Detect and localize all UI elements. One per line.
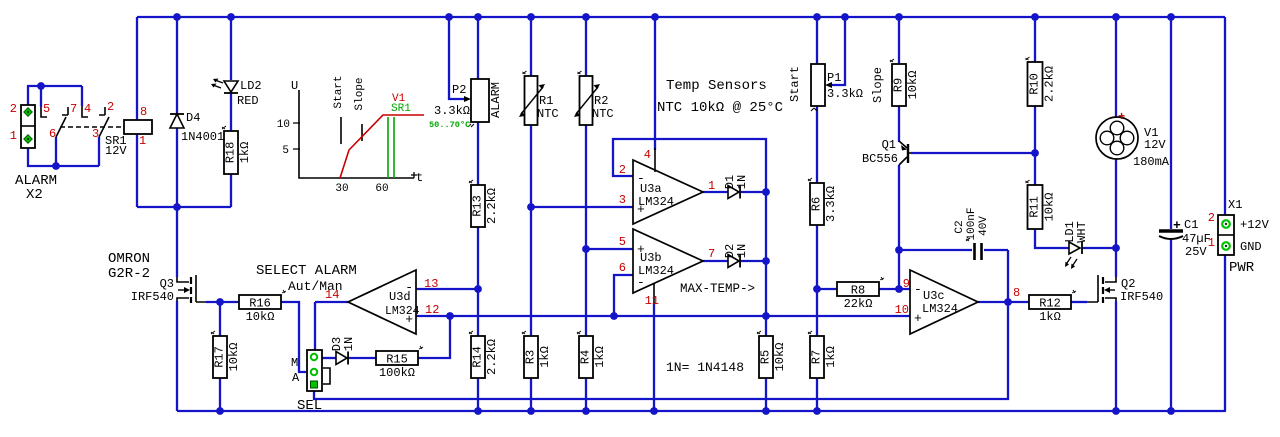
resistor R12 [1029,295,1071,309]
svg-text:2: 2 [107,100,114,114]
svg-text:30: 30 [335,183,348,195]
svg-text:1N: 1N [342,337,356,351]
wire X1 pin1 to ground [1224,255,1226,411]
SEL pin A (green) [311,369,317,375]
X1 pin 2 (green) [1222,220,1230,228]
svg-text:LM324: LM324 [922,302,958,316]
lamp V1 [1096,117,1138,159]
svg-text:-: - [637,171,645,186]
svg-text:X1: X1 [1228,198,1242,212]
wire R2 bottom to R4 [585,125,587,336]
wire LD2 top [230,17,232,80]
relay coil SR1 [124,120,152,134]
wire U3a pin4 from rail [654,17,656,150]
svg-text:1N= 1N4148: 1N= 1N4148 [666,360,744,375]
wire U3b output to D2 [703,260,728,262]
wire U3b pin5 net [586,248,633,250]
svg-text:Slope: Slope [354,77,366,110]
resistor R9 [892,64,906,106]
relay contact terminal 5 [41,107,47,117]
wire P2 to R13 [477,122,479,185]
svg-text:60: 60 [375,183,388,195]
svg-text:C1: C1 [1184,218,1198,232]
svg-text:2: 2 [1208,211,1215,225]
svg-text:25V: 25V [1185,245,1207,259]
wire U3a pin3 net [531,206,633,208]
svg-text:-: - [914,282,922,297]
graph green lines SR1 [388,117,394,178]
svg-text:Slope: Slope [871,67,885,103]
svg-text:P1: P1 [827,71,841,85]
resistor R6 [810,183,824,225]
svg-text:PWR: PWR [1229,260,1255,276]
svg-text:BC556: BC556 [862,152,898,166]
wire R14 bottom [477,378,479,411]
wire Q2 source [1115,301,1117,411]
wire U3a output to D1 [703,191,728,193]
svg-text:14: 14 [325,288,339,302]
svg-text:6: 6 [619,261,626,275]
resistor R15 [376,351,418,365]
resistor R18 [224,131,238,174]
resistor R14 [471,336,485,378]
svg-text:Q1: Q1 [882,138,896,152]
svg-text:3: 3 [92,127,99,141]
svg-text:47µF: 47µF [1182,232,1211,246]
wire R9 top [898,17,900,64]
svg-text:SR1: SR1 [391,103,411,115]
svg-text:3.3kΩ: 3.3kΩ [434,104,470,118]
svg-text:8: 8 [140,105,147,119]
svg-text:M: M [291,356,298,370]
relay contact blade 6-7 [56,117,66,137]
wire R16 to Q3 gate [206,301,239,303]
svg-text:-: - [637,275,645,290]
wire D4 top [176,17,178,114]
wire R10 to R11 [1034,106,1036,185]
capacitor C1 electrolytic [1159,229,1183,232]
LED LD2 [224,81,238,92]
X1 pin 1 (green) [1222,242,1230,250]
svg-text:1: 1 [708,179,715,193]
svg-text:R12: R12 [1039,297,1061,311]
svg-text:12V: 12V [105,144,127,158]
svg-text:R6: R6 [810,197,824,211]
svg-text:3.3kΩ: 3.3kΩ [827,87,863,101]
wire LD2 to R18 [230,93,232,131]
wire R6 chain top P1 [816,17,818,64]
svg-text:R11: R11 [1028,196,1042,218]
wire U3a feedback pin2 [613,139,766,192]
svg-text:13: 13 [424,277,438,291]
svg-text:LM324: LM324 [385,305,420,318]
svg-text:R15: R15 [386,353,408,367]
svg-text:+12V: +12V [1240,218,1270,232]
svg-text:+: + [637,242,645,257]
wire R1 top [530,17,532,76]
op-amp U3a LM324 [633,160,703,224]
wire C2 left [899,249,972,251]
wire D3 to R15 [349,357,376,359]
wire V1 bottom [1115,159,1117,248]
wire U3d pin14 to SEL M [314,302,316,353]
svg-text:+: + [914,311,922,326]
graph axes [299,90,414,178]
svg-text:R5: R5 [759,350,773,364]
svg-text:LD2: LD2 [240,79,262,93]
resistor R8 [837,282,879,296]
transistor Q2 IRF540 [1105,277,1116,282]
relay contact blade 3-2 [99,117,109,137]
wire R18 bottom [230,174,232,207]
svg-text:SELECT ALARM: SELECT ALARM [256,263,357,279]
svg-text:A: A [292,371,300,385]
svg-text:ALARM: ALARM [489,82,503,118]
relay contact terminal 4 [82,106,88,117]
svg-text:1kΩ: 1kΩ [238,142,252,164]
wire GND bottom rail [177,410,1226,412]
relay contact terminal 2 [99,107,105,115]
svg-text:1kΩ: 1kΩ [1039,310,1061,324]
potentiometer P1 [811,64,825,106]
svg-text:+: + [637,202,645,217]
svg-text:22kΩ: 22kΩ [844,297,873,311]
wire coil SR1 bottom to node [136,133,138,207]
wire R8 right to U3c pin9 [879,288,910,290]
wire R11 to LD1 [1035,229,1069,248]
svg-text:R8: R8 [851,284,865,298]
graph curve V1 (red) [340,115,424,178]
svg-text:100kΩ: 100kΩ [379,366,415,380]
svg-text:7: 7 [708,247,715,261]
wire R7 bottom [816,378,818,411]
svg-text:100nF: 100nF [966,207,978,240]
svg-text:Q2: Q2 [1121,277,1135,291]
svg-text:P2: P2 [452,83,466,97]
resistor R11 [1028,185,1043,229]
LED LD1 [1069,242,1080,254]
svg-text:6: 6 [49,127,56,141]
svg-text:R18: R18 [224,142,238,164]
svg-text:U3c: U3c [923,289,945,303]
svg-text:3.3kΩ: 3.3kΩ [824,186,838,222]
svg-text:R9: R9 [892,78,906,92]
svg-text:-: - [405,280,413,295]
wire P1 wiper to rail [829,17,845,85]
SEL pin M (green) [311,354,317,360]
svg-text:R10: R10 [1028,73,1042,95]
wire D1 cathode [741,191,766,193]
svg-text:NTC: NTC [592,107,614,121]
wire R1 bottom to R3 [530,125,532,336]
wire D4 bottom [176,128,178,207]
svg-text:X2: X2 [26,187,43,203]
wire Q2 drain [1115,248,1117,277]
svg-text:R16: R16 [249,297,271,311]
connector X2 pin 2 (green) [24,108,32,116]
relay contact terminal 7 [62,107,68,115]
connector X1 [1218,215,1234,255]
wire X1 pin2 from rail [1224,17,1226,215]
diode D4 [170,113,184,115]
capacitor C2 [973,243,976,260]
svg-text:+: + [1173,218,1181,233]
potentiometer P2 [471,79,489,122]
wire R15 to pin12 net [417,316,450,358]
svg-text:R3: R3 [524,350,538,364]
svg-text:7: 7 [70,102,77,116]
svg-text:MAX-TEMP->: MAX-TEMP-> [680,282,755,296]
svg-text:1N4001: 1N4001 [181,130,224,144]
wire R4 bottom [585,378,587,411]
wire R9 to Q1 emitter [898,106,900,142]
connector SEL [307,350,322,391]
wire R16 right to SEL A [281,302,306,372]
op-amp U3b LM324 [633,229,703,293]
wire U3b pin11 to ground [653,303,655,411]
wire R3 bottom [530,378,532,411]
wire U3b pin6 down [614,275,633,316]
svg-text:R4: R4 [579,350,593,364]
svg-text:R14: R14 [471,346,485,368]
resistor R4 [579,336,593,378]
svg-text:Start: Start [333,75,345,108]
svg-text:Start: Start [788,66,802,102]
svg-text:10: 10 [277,119,290,131]
svg-text:12: 12 [425,303,439,317]
svg-text:G2R-2: G2R-2 [108,266,150,282]
svg-text:+: + [1118,110,1125,124]
svg-text:1: 1 [1208,236,1215,250]
transistor Q1 BC556 [907,144,909,163]
connector X2 [21,105,35,148]
svg-text:4: 4 [644,148,651,162]
wire R17 top [219,302,221,336]
wire U3c output to R12 [978,301,1029,303]
svg-text:SEL: SEL [297,398,322,414]
svg-text:1kΩ: 1kΩ [593,346,607,368]
svg-text:2.2kΩ: 2.2kΩ [1043,66,1057,102]
svg-text:12V: 12V [1144,138,1166,152]
U3b pin11 stub [653,283,655,304]
svg-text:5: 5 [619,235,626,249]
svg-text:OMRON: OMRON [108,251,150,267]
svg-text:Q3: Q3 [160,277,174,291]
svg-text:1N: 1N [735,244,749,258]
wire C2 right [984,249,1008,251]
wire U3d pin13 net [416,288,478,290]
resistor R16 [239,295,281,309]
svg-text:10kΩ: 10kΩ [1043,193,1057,222]
svg-text:NTC 10kΩ @ 25°C: NTC 10kΩ @ 25°C [657,100,783,116]
svg-text:9: 9 [903,277,910,291]
wire U3d output [315,301,348,303]
svg-text:+: + [405,312,413,327]
resistor R13 [471,185,485,227]
wire R6 to R8 node to R7 [816,225,818,336]
wire R10 top [1034,17,1036,62]
svg-text:1: 1 [139,134,146,148]
wire P1 to R6 [816,106,818,183]
svg-text:10kΩ: 10kΩ [773,343,787,372]
wire R5 bottom [765,378,767,411]
wire D2 cathode [741,260,766,262]
resistor R7 [810,336,824,378]
svg-text:2.2kΩ: 2.2kΩ [485,188,499,224]
transistor Q3 IRF540 [177,277,189,282]
svg-text:10: 10 [895,303,909,317]
wire Q1 base to R10 R11 node [911,152,1035,154]
wire V1 top [1115,17,1117,117]
resistor R17 [213,336,227,378]
wire Q1 collector down [898,165,900,289]
svg-text:10kΩ: 10kΩ [246,310,275,324]
wire Q3 source to ground rail [176,301,178,411]
SEL pin bottom (green) [311,381,318,388]
svg-text:4: 4 [84,102,91,116]
resistor R3 [524,336,538,378]
wire R17 bottom [219,378,221,411]
wire coil SR1 top from rail [136,17,138,120]
U3a pin4 stub [654,148,656,172]
svg-text:D4: D4 [186,111,200,125]
thermistor R1 NTC [525,76,538,125]
wire X2 pin2 to contacts [28,86,82,107]
svg-text:WHT: WHT [1075,221,1089,243]
op-amp U3c LM324 [910,270,978,334]
wire junction dots [173,13,181,21]
svg-text:2: 2 [10,102,17,116]
svg-text:1: 1 [10,129,17,143]
svg-text:1kΩ: 1kΩ [538,346,552,368]
svg-text:NTC: NTC [537,107,559,121]
svg-text:R7: R7 [810,350,824,364]
resistor R5 [759,336,773,378]
wire X2 pin1 to commons [28,137,99,166]
wire diode-OR bus [765,192,767,336]
wire LD1 cathode to Q2 drain node [1082,247,1116,249]
wire R12 to Q2 gate [1071,301,1087,303]
svg-text:5: 5 [43,102,50,116]
svg-text:t: t [416,171,423,185]
wire R2 top [585,17,587,76]
svg-text:11: 11 [645,294,659,308]
svg-text:RED: RED [237,94,259,108]
wire +12V top rail [137,16,1225,18]
svg-text:R17: R17 [213,346,227,368]
wire C1 top [1170,17,1172,229]
svg-text:50..70°C: 50..70°C [429,120,470,130]
svg-text:1kΩ: 1kΩ [824,346,838,368]
svg-text:IRF540: IRF540 [1120,290,1163,304]
svg-text:IRF540: IRF540 [131,290,174,304]
svg-text:Temp Sensors: Temp Sensors [666,78,767,94]
wire SEL M to D3 [322,357,336,359]
svg-text:U: U [291,79,298,93]
svg-text:2.2kΩ: 2.2kΩ [485,339,499,375]
wire P2 wiper from rail [449,17,464,99]
svg-text:40V: 40V [978,216,990,236]
wire relay drive node horizontal [137,206,231,208]
thermistor R2 NTC [580,76,593,125]
svg-text:C2: C2 [954,220,966,233]
svg-text:3: 3 [619,193,626,207]
svg-text:R13: R13 [471,195,485,217]
svg-text:2: 2 [619,163,626,177]
svg-text:GND: GND [1240,240,1262,254]
wire Q3 drain [176,207,178,277]
resistor R10 [1028,62,1043,106]
SEL jumper bracket [323,368,330,384]
wire C1 bottom [1170,240,1172,411]
svg-text:10kΩ: 10kΩ [227,343,241,372]
svg-text:1N: 1N [735,175,749,189]
diode D1 1N [728,186,739,199]
diode D3 1N [336,352,347,365]
svg-text:R1: R1 [539,94,553,108]
connector X2 pin 1 (green) [24,135,32,143]
svg-text:R2: R2 [594,94,608,108]
diode D2 1N [728,255,739,268]
wire P2 top [477,17,479,79]
wire common net y316 [416,315,910,317]
svg-text:180mA: 180mA [1133,155,1170,169]
wire R13 to R14 via pin13 node [477,227,479,336]
wire SEL bottom to U3c out net [314,250,1008,399]
relay mechanical dashed link [60,126,123,128]
svg-text:5: 5 [282,145,289,157]
svg-text:10kΩ: 10kΩ [906,71,920,100]
svg-text:8: 8 [1013,286,1020,300]
wire R8 left [817,288,837,290]
op-amp U3d LM324 [348,270,416,334]
